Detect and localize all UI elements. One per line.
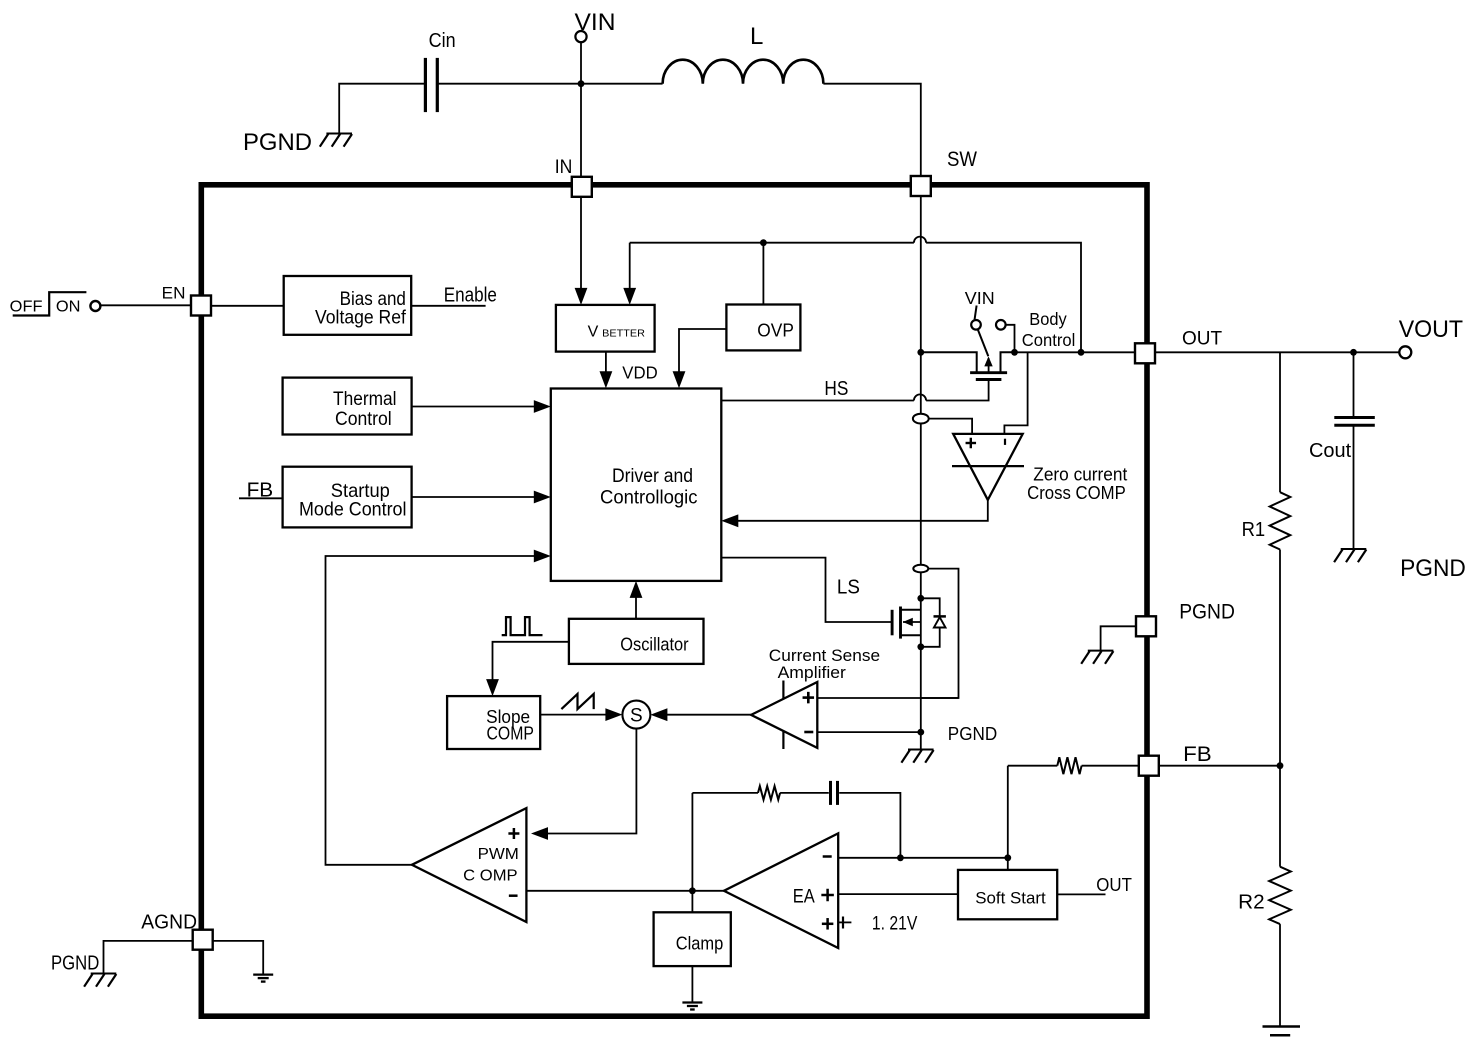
wire Oscillator to Slope COMP xyxy=(493,642,569,682)
ground PGND top-left (chassis) xyxy=(326,133,352,135)
svg-text:BETTER: BETTER xyxy=(602,327,645,339)
node summing circle S xyxy=(622,701,650,729)
svg-text:VIN: VIN xyxy=(575,10,616,36)
svg-text:Cross COMP: Cross COMP xyxy=(1027,482,1126,503)
svg-text:L: L xyxy=(750,23,763,50)
wire VIN vertical from VIN terminal to IN pin xyxy=(580,42,582,177)
op-amp EA xyxy=(724,833,838,948)
wire switch to EN pin xyxy=(101,304,191,306)
svg-text:OFF: OFF xyxy=(10,298,43,315)
wire comp network up xyxy=(691,793,693,891)
wire zero-cross plus input tap xyxy=(913,414,929,424)
wire OUT tap to Vbetter xyxy=(630,242,914,244)
svg-text:OUT: OUT xyxy=(1182,328,1222,350)
wire PWM minus to EA apex xyxy=(526,890,724,892)
wire inductor to SW pin xyxy=(823,84,920,176)
transistor HS source terminal xyxy=(921,352,977,373)
ground Clamp (earth) xyxy=(682,1001,702,1003)
wire R1 top xyxy=(1279,352,1281,492)
node dot SW-HS junction xyxy=(917,349,924,356)
terminal VIN xyxy=(575,31,586,42)
cs amp top power stub xyxy=(782,681,784,699)
wire Clamp to ground xyxy=(691,966,693,1002)
pin PGND xyxy=(1136,616,1156,636)
pin IN xyxy=(572,177,592,197)
node dot LS drain xyxy=(917,595,924,602)
switch body-control right contact xyxy=(996,320,1006,330)
switch OFF/ON position glyph xyxy=(13,292,87,315)
wire R2 top xyxy=(1279,766,1281,867)
wire PWM output loop to Driver xyxy=(326,556,538,865)
wire EA plus input from Soft Start xyxy=(838,893,958,895)
wire Thermal Control to Driver with arrow xyxy=(412,406,536,408)
inductor L xyxy=(663,60,824,84)
svg-text:Thermal: Thermal xyxy=(333,389,397,410)
block Driver and Controllogic xyxy=(551,389,722,581)
node dot PGND junction xyxy=(917,729,924,736)
block OVP xyxy=(726,305,800,351)
node dot OVP tap xyxy=(760,239,767,246)
svg-text:VDD: VDD xyxy=(622,362,657,382)
svg-text:VIN: VIN xyxy=(965,288,995,308)
transistor LS gate bar xyxy=(891,610,894,636)
svg-text:HS: HS xyxy=(824,378,848,400)
wire comp network to resistor xyxy=(692,792,758,794)
svg-text:Cin: Cin xyxy=(429,29,456,52)
transistor HS drain terminal xyxy=(1001,352,1015,373)
svg-text:VOUT: VOUT xyxy=(1399,317,1463,343)
ground PGND bottom-left (chassis) xyxy=(91,973,117,975)
cs amp bottom power stub xyxy=(782,731,784,749)
node dot FB divider xyxy=(1277,762,1284,769)
transistor LS source stub xyxy=(901,634,921,636)
wire R2 bottom xyxy=(1279,924,1281,1025)
svg-text:S: S xyxy=(630,705,643,726)
wire PGND pin to ground xyxy=(1101,626,1136,650)
IC boundary box xyxy=(201,185,1147,1016)
svg-text:OVP: OVP xyxy=(757,320,794,341)
wire FB resistor to FB pin xyxy=(1082,765,1139,767)
node dot LS source xyxy=(917,643,924,650)
svg-text:OUT: OUT xyxy=(1096,874,1132,895)
wire AGND left to PGND ground xyxy=(104,941,193,974)
svg-text:Control: Control xyxy=(335,409,392,430)
wire Cin right plate to VIN node xyxy=(437,83,581,85)
svg-text:Oscillator: Oscillator xyxy=(620,635,688,655)
wire HS gate line xyxy=(721,400,914,402)
svg-text:PGND: PGND xyxy=(1179,600,1235,624)
wire EN pin to Bias block xyxy=(211,305,284,307)
label ea minus xyxy=(823,855,832,858)
wire VIN stub to left contact xyxy=(975,306,977,320)
svg-text:Control: Control xyxy=(1022,330,1076,350)
node dot EA minus SoftStart xyxy=(1004,854,1011,861)
svg-text:Amplifier: Amplifier xyxy=(778,663,847,682)
transistor LS body arrow xyxy=(903,621,921,623)
wire R1 bottom to FB node xyxy=(1279,550,1281,766)
svg-text:PGND: PGND xyxy=(243,130,312,156)
transistor HS body arrow xyxy=(988,358,990,373)
op-amp current sense amplifier xyxy=(751,682,817,748)
svg-text:AGND: AGND xyxy=(141,910,197,933)
svg-text:V: V xyxy=(588,323,599,340)
svg-text:R2: R2 xyxy=(1238,892,1265,914)
svg-text:ON: ON xyxy=(56,298,81,315)
wire SW net vertical xyxy=(920,197,922,750)
wire EA minus input xyxy=(838,857,1008,859)
svg-text:LS: LS xyxy=(837,576,860,598)
label ea plus low xyxy=(822,923,834,926)
svg-text:FB: FB xyxy=(1183,743,1212,766)
pin OUT xyxy=(1135,343,1155,363)
pin FB xyxy=(1139,756,1159,776)
wire Oscillator to Driver arrow xyxy=(635,595,637,619)
svg-text:Driver and: Driver and xyxy=(612,466,693,487)
ground AGND (earth) xyxy=(253,973,273,975)
transistor LS drain stub xyxy=(901,609,921,611)
wire cs plus input xyxy=(817,697,958,699)
wire VDD arrow to Driver xyxy=(605,352,607,375)
ground Cout PGND (chassis) xyxy=(1341,548,1367,550)
wire LS gate line xyxy=(721,558,892,622)
wire IN pin down to Vbetter xyxy=(580,197,582,291)
svg-text:R1: R1 xyxy=(1242,519,1266,541)
pin AGND xyxy=(193,930,213,950)
svg-text:SW: SW xyxy=(947,148,977,171)
wire OUT to VOUT xyxy=(1155,351,1399,353)
wire cs minus input xyxy=(817,731,921,733)
label cs plus xyxy=(803,696,815,699)
diode LS body diode xyxy=(921,598,940,616)
svg-text:Enable: Enable xyxy=(444,285,497,307)
wire zero-cross minus input xyxy=(1004,352,1027,434)
transistor HS channel bar xyxy=(970,371,1007,374)
wire Cin left to PGND xyxy=(339,84,425,134)
svg-text:PWM: PWM xyxy=(478,846,519,863)
label pwm minus xyxy=(509,894,518,897)
block Startup Mode Control xyxy=(283,467,412,528)
node dot OUT-Vbetter tap xyxy=(1078,349,1085,356)
wire LS tap ellipse xyxy=(913,565,928,573)
op-amp PWM COMP xyxy=(412,808,527,922)
wire FB pin to divider xyxy=(1159,765,1280,767)
svg-text:PGND: PGND xyxy=(948,724,997,744)
resistor R1 xyxy=(1270,492,1291,549)
wire cs output to summing node xyxy=(665,714,751,716)
glyph sawtooth xyxy=(561,694,593,709)
pin EN xyxy=(191,296,211,316)
svg-text:Controllogic: Controllogic xyxy=(600,488,698,509)
node dot body switch tap xyxy=(1011,349,1018,356)
wire zero-cross output to Driver xyxy=(736,500,988,521)
label ea plus mid xyxy=(821,894,834,897)
block Slope COMP xyxy=(447,696,540,749)
pin SW xyxy=(911,176,931,196)
glyph ref tick xyxy=(842,917,844,929)
wire FB stub into Startup block xyxy=(239,497,283,499)
transistor HS gate bar xyxy=(976,378,1002,381)
svg-text:COMP: COMP xyxy=(487,723,534,744)
wire OVP top tap xyxy=(762,243,764,305)
label zc plus xyxy=(966,442,977,444)
wire VIN node to inductor xyxy=(581,83,663,85)
capacitor comp C xyxy=(829,781,832,805)
resistor R2 xyxy=(1269,867,1291,924)
switch body-control lever xyxy=(978,330,989,357)
svg-text:Soft Start: Soft Start xyxy=(975,889,1046,908)
capacitor Cin xyxy=(424,58,427,112)
block Clamp xyxy=(654,912,731,966)
svg-text:C OMP: C OMP xyxy=(463,868,517,885)
wire Slope COMP to summing node xyxy=(540,714,608,716)
transistor LS channel bar xyxy=(899,607,902,639)
wire clamp junction to Clamp xyxy=(691,891,693,913)
node dot clamp junction xyxy=(689,887,696,894)
wire comp R to comp C xyxy=(780,792,829,794)
block Soft Start xyxy=(958,870,1057,919)
node dot EA minus RC xyxy=(897,854,904,861)
terminal VOUT xyxy=(1399,346,1411,358)
svg-text:Mode Control: Mode Control xyxy=(299,499,407,521)
terminal enable switch circle xyxy=(90,301,100,311)
node VIN junction dot xyxy=(578,80,585,87)
wire Cout top xyxy=(1353,352,1355,416)
wire OVP to Driver with arrow xyxy=(679,329,726,375)
wire AGND right to earth ground xyxy=(213,941,264,975)
svg-text:EN: EN xyxy=(162,284,186,303)
svg-text:Voltage Ref: Voltage Ref xyxy=(315,307,406,329)
wire right contact to OUT net xyxy=(1006,325,1015,353)
svg-text:IN: IN xyxy=(555,157,573,178)
node dot Cout tap xyxy=(1350,349,1357,356)
wire FB to Soft Start vertical xyxy=(1007,766,1009,870)
wire Soft Start OUT stub xyxy=(1057,893,1105,895)
glyph clock pulses xyxy=(502,617,543,635)
svg-text:Body: Body xyxy=(1029,309,1067,329)
wire S to PWM comp plus xyxy=(546,729,636,834)
svg-text:Cout: Cout xyxy=(1309,440,1352,462)
resistor comp R xyxy=(758,786,780,800)
label zc minus xyxy=(1004,439,1006,445)
ground R2 (earth) xyxy=(1263,1025,1301,1028)
svg-text:Clamp: Clamp xyxy=(676,934,724,954)
capacitor Cout xyxy=(1334,416,1375,419)
op-amp zero current cross comparator xyxy=(953,434,1023,500)
label pwm plus xyxy=(508,832,519,835)
block Oscillator xyxy=(569,619,704,664)
svg-text:1. 21V: 1. 21V xyxy=(872,914,918,935)
wire EA ref stub xyxy=(838,921,851,923)
resistor FB filter xyxy=(1057,757,1081,774)
switch body-control left contact xyxy=(971,320,981,330)
svg-text:EA: EA xyxy=(793,886,815,907)
wire comp C to EA minus node xyxy=(839,793,900,858)
svg-text:PGND: PGND xyxy=(1400,556,1466,582)
wire Cout bottom xyxy=(1353,427,1355,549)
wire HS drain to OUT pin xyxy=(1015,351,1136,353)
svg-text:PGND: PGND xyxy=(51,952,99,974)
wire Enable output xyxy=(411,305,485,307)
block Bias and Voltage Ref xyxy=(284,276,412,335)
ground PGND pin (chassis) xyxy=(1088,650,1114,652)
wire Startup to Driver with arrow xyxy=(412,496,536,498)
ground PGND inside (chassis) xyxy=(908,749,934,751)
wire FB node to resistor xyxy=(1008,765,1058,767)
label cs minus xyxy=(804,731,813,734)
block V BETTER xyxy=(556,305,655,352)
block Thermal Control xyxy=(283,378,412,435)
